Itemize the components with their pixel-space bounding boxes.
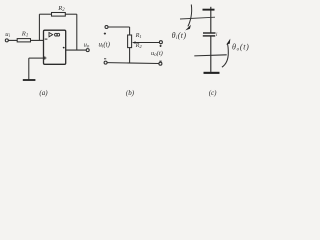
svg-text:ui(t): ui(t) [99,40,111,49]
svg-text:i: i [216,32,218,38]
svg-text:(a): (a) [39,89,48,97]
svg-text:R1: R1 [135,32,142,39]
svg-text:θo(t): θo(t) [232,43,250,53]
svg-text:ui: ui [5,31,10,39]
svg-text:uo(t): uo(t) [151,50,163,58]
svg-text:θi(t): θi(t) [172,31,187,41]
svg-text:R2: R2 [57,5,65,13]
svg-text:R1: R1 [21,30,28,38]
svg-text:(c): (c) [209,89,217,97]
svg-text:(b): (b) [126,89,135,97]
svg-text:uo: uo [84,42,90,50]
svg-text:R2: R2 [135,42,143,49]
